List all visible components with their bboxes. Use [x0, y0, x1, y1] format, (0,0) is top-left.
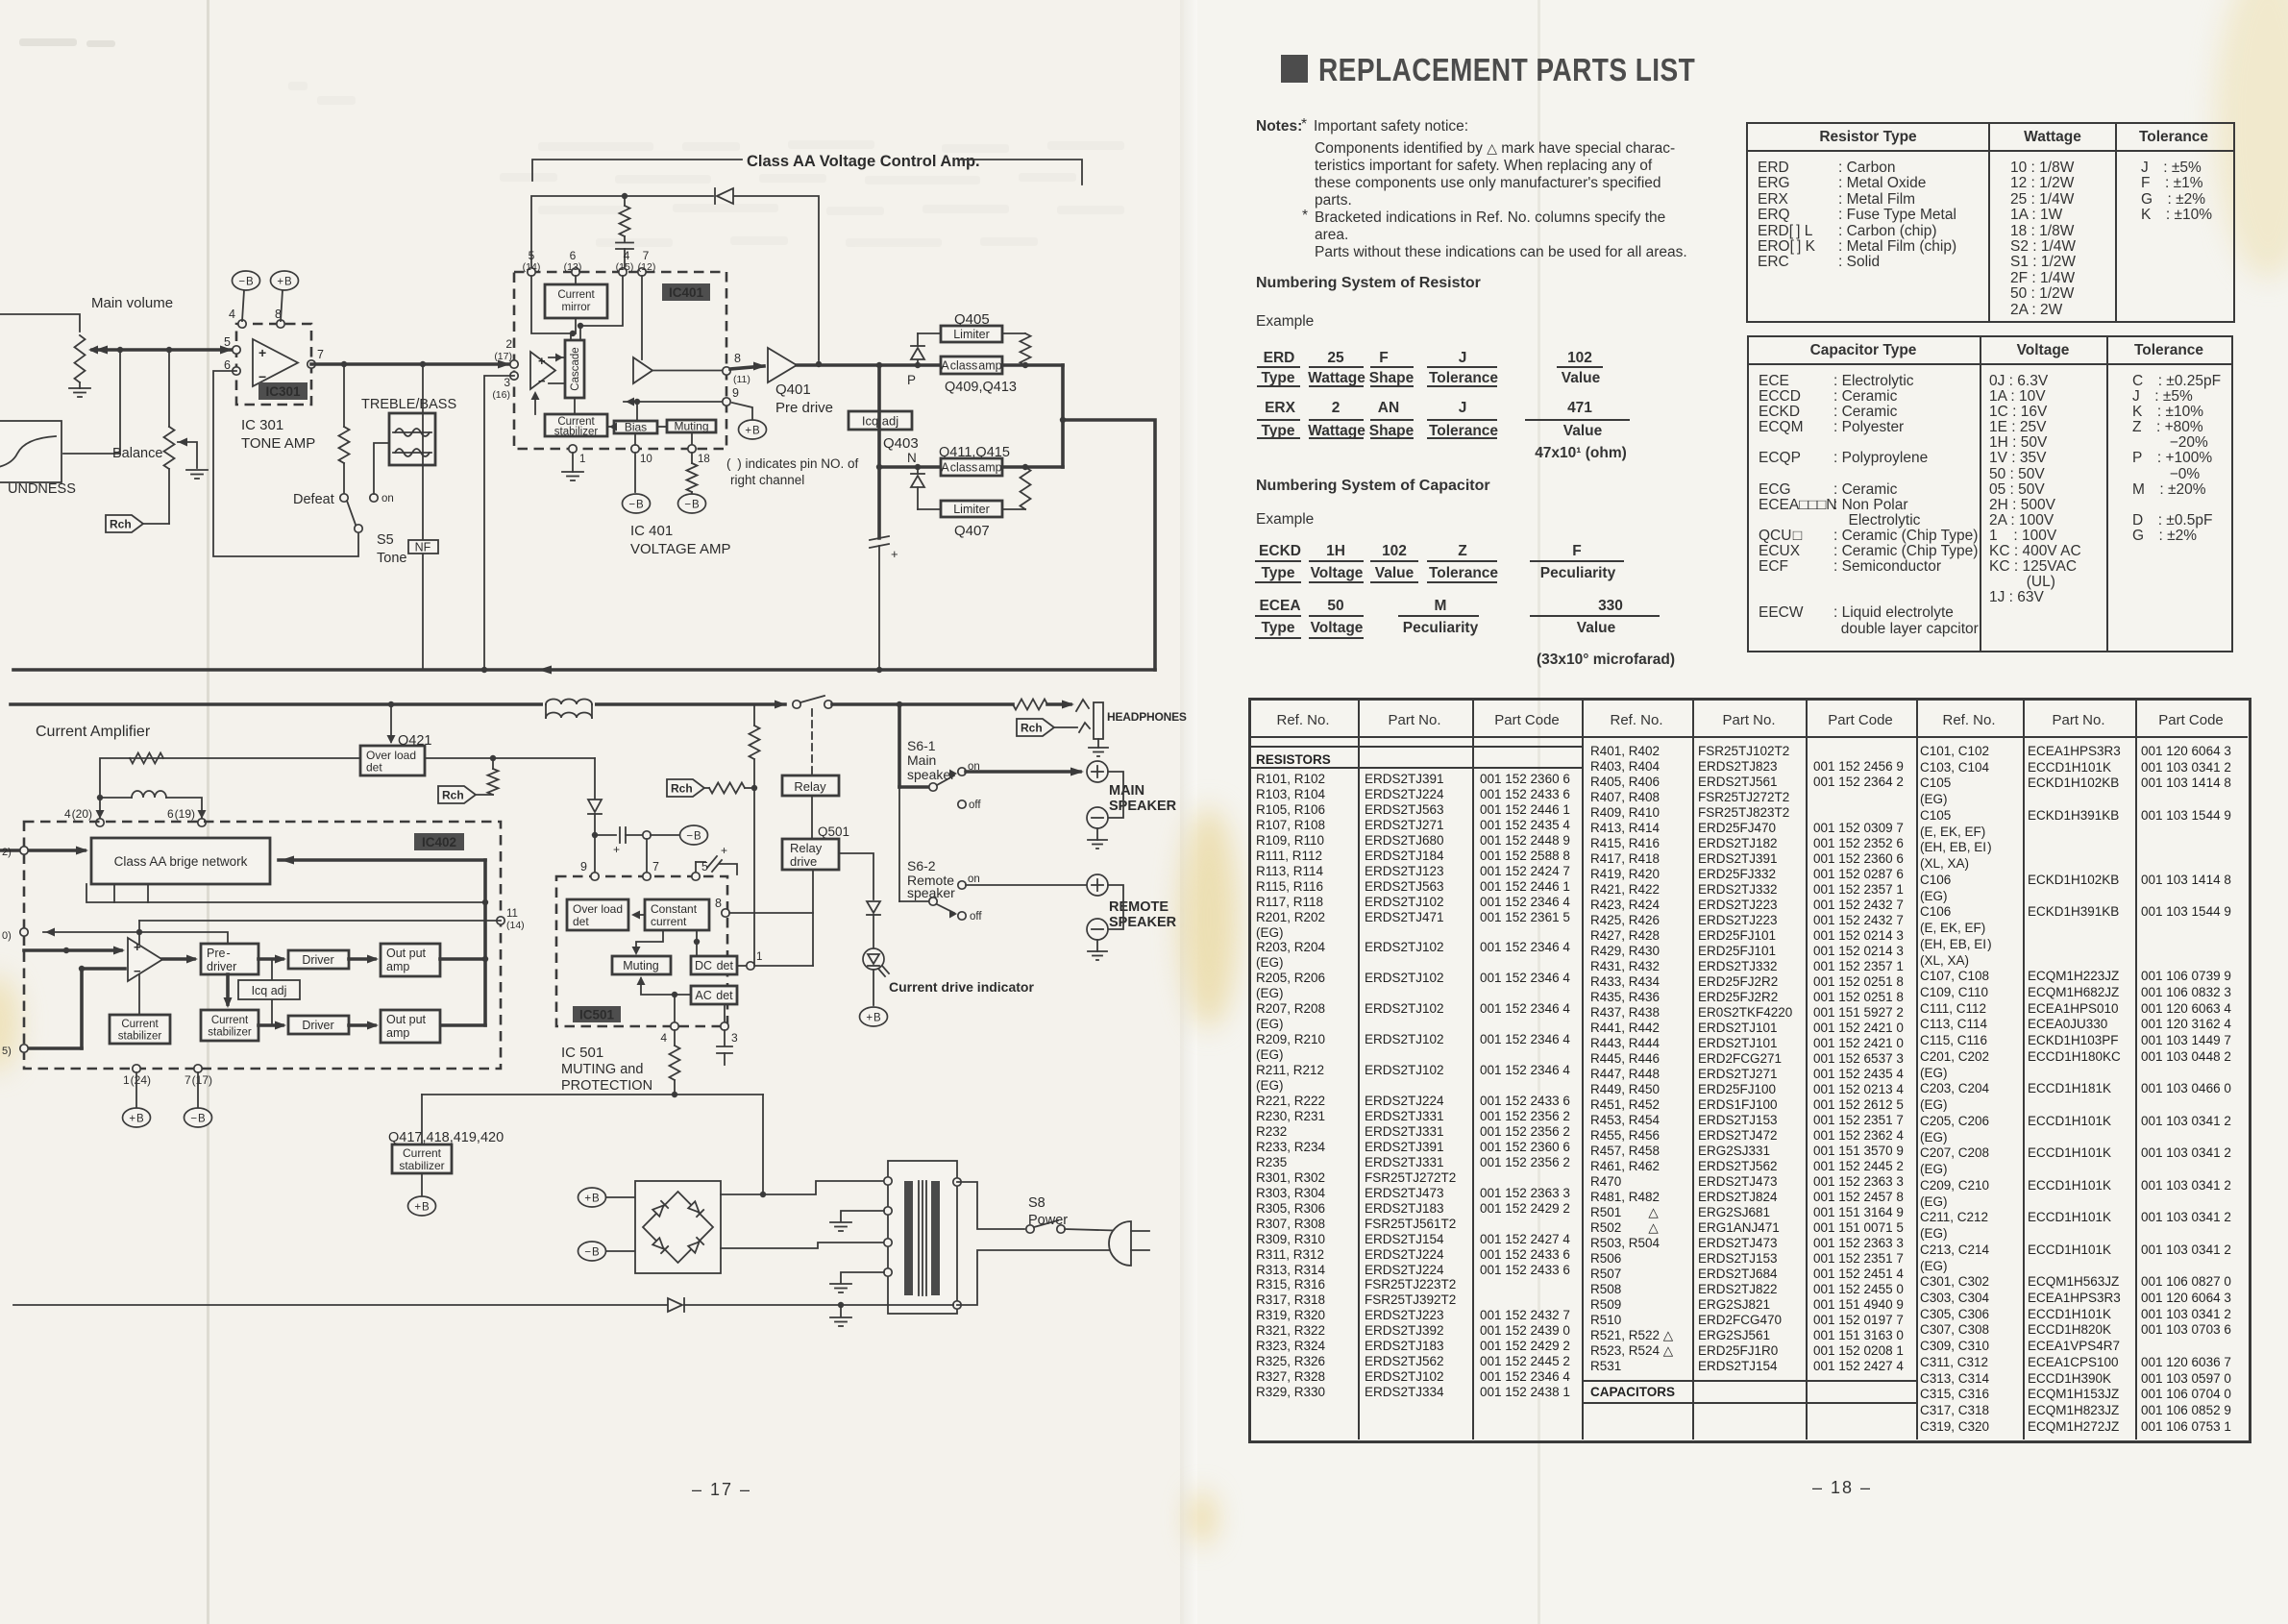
- svg-text:off: off: [969, 800, 981, 811]
- capacitor (above IC401 pin 4): [616, 242, 633, 244]
- svg-text:IC401: IC401: [669, 285, 704, 300]
- svg-text:+: +: [721, 844, 727, 857]
- big replacement parts table: [1248, 698, 2251, 1443]
- svg-text:(12): (12): [638, 261, 656, 273]
- wire constant current to overload det: [634, 914, 645, 916]
- wire IC301 output line: [311, 362, 514, 366]
- IC402 dashed outline: [24, 822, 501, 1069]
- wire feedback from pin 11: [139, 920, 501, 922]
- svg-text:3: 3: [731, 1031, 738, 1045]
- svg-text:4: 4: [229, 308, 235, 321]
- svg-text:Class AA brige network: Class AA brige network: [114, 854, 248, 869]
- wire relay to relay drive: [811, 796, 813, 839]
- svg-text:7: 7: [317, 348, 324, 361]
- power +B (LED): [860, 1007, 888, 1026]
- svg-text:Tone: Tone: [377, 551, 406, 566]
- notes: [1256, 118, 1302, 135]
- svg-text:UNDNESS: UNDNESS: [8, 481, 76, 497]
- svg-text:11: 11: [506, 908, 518, 920]
- svg-text:7: 7: [652, 860, 659, 874]
- potentiometer Balance: [168, 350, 170, 427]
- capacitor (pin 3): [724, 1030, 726, 1046]
- svg-text:drive: drive: [790, 854, 817, 869]
- resistor (Q405 branch): [1021, 333, 1031, 365]
- block Current mirror: [545, 284, 607, 318]
- svg-text:SPEAKER: SPEAKER: [1109, 799, 1177, 814]
- power +B (IC402): [123, 1108, 151, 1127]
- block Current stabilizer Q417-420: [392, 1144, 452, 1173]
- wire S5 on-contact to treble/bass box: [374, 443, 389, 494]
- svg-text:9: 9: [580, 860, 587, 874]
- block Muting (IC501): [612, 956, 671, 974]
- switch S5 Tone: [340, 494, 348, 502]
- svg-text:3: 3: [504, 376, 510, 389]
- resistor (pin 4): [674, 1030, 676, 1046]
- block Current stabilizer (IC401): [545, 414, 607, 436]
- svg-text:Driver: Driver: [302, 1019, 333, 1032]
- power -B (IC301 pin4): [242, 290, 244, 321]
- wire relay drive to pin 8: [812, 870, 814, 966]
- resistor (headphone feed): [1013, 700, 1047, 710]
- inductor (fb coil): [100, 797, 132, 799]
- svg-text:+: +: [891, 547, 898, 561]
- block Limiter Q405: [918, 332, 941, 334]
- wire rectifier output (top): [721, 1181, 884, 1194]
- svg-text:amp: amp: [386, 1026, 409, 1040]
- ground (balance): [186, 469, 208, 471]
- svg-text:Cascade: Cascade: [570, 347, 581, 390]
- block Current stabilizer (left): [110, 1015, 170, 1044]
- pin 3 of IC501: [724, 1004, 726, 1026]
- svg-text:(16): (16): [492, 389, 510, 401]
- svg-text:5: 5: [701, 860, 708, 874]
- block Over load det (Q421): [360, 746, 425, 775]
- svg-text:Muting: Muting: [623, 959, 659, 972]
- power +B (IC301 pin8): [281, 290, 283, 321]
- block Current stabilizer (mid): [201, 1010, 258, 1041]
- block NF: [422, 364, 424, 540]
- svg-text:6: 6: [570, 249, 577, 262]
- wire main bus to headphones: [11, 702, 785, 706]
- svg-text:P: P: [907, 373, 916, 387]
- svg-text:+: +: [613, 843, 620, 856]
- terminal main speaker -: [1108, 772, 1123, 818]
- block Class AA brige network: [91, 838, 270, 884]
- block Icq adj (IC402): [271, 959, 273, 1025]
- svg-text:4: 4: [660, 1031, 667, 1045]
- svg-text:S6-2: S6-2: [907, 858, 936, 874]
- svg-text:Defeat: Defeat: [293, 492, 334, 507]
- svg-text:−: −: [538, 374, 546, 388]
- wire - input of IC402 opamp: [24, 1046, 82, 1050]
- wire bottom winding line: [13, 1304, 667, 1306]
- resistor (pin 18): [687, 463, 698, 492]
- svg-text:Current drive indicator: Current drive indicator: [889, 979, 1034, 995]
- flag Rch (relay): [667, 779, 704, 797]
- pin 5 (14) of IC401: [528, 268, 535, 276]
- svg-text:IC501: IC501: [579, 1008, 615, 1022]
- op-amp (IC401 input stage): [530, 352, 555, 389]
- wire transformer tap 4 to ground: [841, 1272, 884, 1283]
- pin 4 (20) of IC402: [96, 810, 105, 819]
- svg-text:5): 5): [2, 1046, 12, 1057]
- svg-text:current: current: [651, 915, 687, 928]
- block Out put amp (upper): [381, 944, 440, 976]
- svg-text:Current: Current: [557, 289, 595, 301]
- resistor (top of IC401 pin 4): [624, 196, 626, 206]
- svg-text:− B: − B: [686, 831, 701, 843]
- pin 10 of IC401: [631, 445, 639, 453]
- svg-text:HEADPHONES: HEADPHONES: [1107, 710, 1187, 724]
- wire input to main volume pot: [0, 314, 80, 332]
- capacitor (electrolytic at pin9): [595, 834, 616, 836]
- svg-text:18: 18: [698, 454, 710, 465]
- wire input to Class AA network: [0, 849, 85, 852]
- diode (relay feed): [594, 758, 596, 799]
- svg-text:0): 0): [2, 930, 12, 942]
- power +B (Q417 stabilizer): [421, 1173, 423, 1195]
- svg-text:Over load: Over load: [573, 902, 623, 916]
- svg-text:− B: − B: [190, 1114, 206, 1125]
- svg-text:Icq adj: Icq adj: [252, 984, 287, 997]
- LED Current drive indicator: [863, 948, 884, 970]
- power -B (pin 10): [623, 494, 651, 513]
- svg-text:Q403: Q403: [883, 435, 919, 452]
- svg-text:Q417,418,419,420: Q417,418,419,420: [388, 1130, 504, 1145]
- wire driver to out put amp: [349, 957, 375, 961]
- svg-text:Relay: Relay: [794, 779, 826, 794]
- switch S6-2: [899, 900, 928, 902]
- svg-text:MUTING and: MUTING and: [561, 1062, 643, 1077]
- wire constant current to DC det: [696, 930, 698, 956]
- svg-text:Current: Current: [211, 1015, 249, 1026]
- svg-text:(14): (14): [506, 920, 525, 931]
- op-amp IC301: [236, 324, 311, 405]
- resistor (Q407 branch): [1021, 467, 1031, 509]
- svg-text:10: 10: [640, 454, 652, 465]
- svg-text:Out put: Out put: [386, 947, 427, 960]
- switch (headphone mute): [775, 701, 786, 709]
- transformer T1: [888, 1161, 957, 1314]
- svg-text:A class amp: A class amp: [941, 461, 1001, 475]
- diode D401 (feedback, pointing left): [717, 188, 733, 204]
- capacitor (pin 5): [695, 862, 697, 873]
- wire main signal line: [92, 348, 234, 352]
- svg-text:TONE AMP: TONE AMP: [241, 435, 315, 452]
- svg-text:+: +: [538, 354, 546, 368]
- node: Class AA Voltage Control Amp. bracket: [532, 160, 742, 181]
- svg-text:+ B: + B: [129, 1114, 144, 1125]
- block Driver (lower): [288, 1016, 349, 1034]
- wire pre-driver down to stabilizer: [226, 974, 230, 1004]
- pin 4 (15) of IC401: [619, 268, 627, 276]
- power -B (pin 7 line): [651, 834, 678, 836]
- svg-text:stabilizer: stabilizer: [208, 1027, 252, 1039]
- svg-text:Main volume: Main volume: [91, 295, 173, 311]
- svg-text:Rch: Rch: [1021, 722, 1043, 735]
- svg-text:det: det: [573, 915, 589, 928]
- headphone jack: [1076, 700, 1089, 711]
- svg-text:SPEAKER: SPEAKER: [1109, 915, 1177, 930]
- wire network bottom taps: [113, 884, 115, 902]
- op-amp block IC401 (dashed outline): [514, 272, 726, 449]
- pin 1 of IC501: [737, 965, 747, 967]
- svg-text:Constant: Constant: [651, 902, 698, 916]
- power +B (IC401 pin9): [732, 403, 752, 420]
- block Relay drive: [782, 839, 839, 870]
- wire rectifier output (bottom): [721, 1243, 884, 1248]
- ECKD example row: [1259, 543, 1301, 560]
- pin 7 (17) of IC402: [194, 1065, 202, 1072]
- svg-text:Q501: Q501: [818, 824, 849, 839]
- pin 1 (24) of IC402: [133, 1065, 140, 1072]
- pin 9 of IC501: [591, 873, 599, 880]
- flag Rch (headphones): [1017, 719, 1054, 736]
- svg-text:− B: − B: [238, 277, 254, 288]
- wire top feedback loop: [531, 196, 713, 270]
- svg-text:stabilizer: stabilizer: [399, 1159, 444, 1172]
- svg-text:Pre drive: Pre drive: [775, 400, 833, 416]
- svg-text:( ) indicates pin NO. of: ( ) indicates pin NO. of: [726, 456, 859, 471]
- pin 7 (12) of IC401: [638, 268, 646, 276]
- diode (LED chain): [867, 901, 880, 913]
- scan artifacts (bleed-through, decorative): [288, 82, 1124, 247]
- svg-text:PROTECTION: PROTECTION: [561, 1078, 652, 1094]
- bridge rectifier: [635, 1181, 721, 1273]
- ground (bottom line): [840, 1305, 842, 1316]
- wire P output to right bus: [1002, 363, 1063, 367]
- transistor Q401 Pre drive: [768, 348, 797, 382]
- svg-text:Balance: Balance: [112, 446, 162, 461]
- potentiometer Main volume: [75, 335, 86, 382]
- svg-text:Rch: Rch: [442, 789, 464, 802]
- svg-text:Rch: Rch: [671, 782, 693, 796]
- svg-text:IC 401: IC 401: [630, 523, 673, 539]
- block Muting (IC401): [667, 420, 716, 432]
- svg-text:on: on: [968, 874, 980, 885]
- svg-text:Limiter: Limiter: [953, 503, 990, 516]
- svg-text:5: 5: [529, 249, 535, 262]
- svg-text:4 (20): 4 (20): [64, 807, 92, 821]
- ECEA example row: [1259, 598, 1300, 615]
- svg-text:speaker: speaker: [907, 767, 955, 782]
- pin 4 of IC501: [674, 995, 676, 1026]
- pin 5 of IC501: [692, 873, 700, 880]
- svg-text:8: 8: [734, 352, 741, 365]
- wire + input of IC402 opamp: [24, 948, 121, 952]
- wire S6-2 to remote speaker: [966, 884, 1086, 886]
- label IC402: [414, 833, 464, 850]
- resistor (Rch relay): [709, 783, 745, 794]
- block DC det: [691, 956, 737, 974]
- svg-text:mirror: mirror: [561, 302, 590, 313]
- diode (P limiter): [917, 359, 919, 365]
- wire buffer to pin 8 (11): [652, 370, 723, 372]
- wire balance wiper to ground: [178, 442, 197, 468]
- pin 7 of IC501: [643, 873, 651, 880]
- wire secondary to S8: [957, 1182, 1024, 1229]
- flag Rch (IC402): [438, 786, 476, 803]
- block Limiter Q407: [918, 508, 941, 510]
- wire Q401 output line: [797, 363, 941, 367]
- svg-text:Current: Current: [403, 1146, 442, 1160]
- inductor (output coil): [543, 699, 595, 710]
- label IC401: [662, 283, 710, 301]
- wire N output to right bus: [1002, 465, 1063, 469]
- svg-text:Muting: Muting: [674, 420, 708, 433]
- svg-text:Main: Main: [907, 752, 936, 768]
- svg-text:5: 5: [224, 335, 231, 349]
- terminal main speaker +: [1087, 761, 1108, 782]
- svg-text:IC301: IC301: [265, 384, 301, 399]
- svg-text:Out put: Out put: [386, 1013, 427, 1026]
- svg-text:2): 2): [2, 847, 12, 858]
- svg-text:N: N: [907, 451, 917, 465]
- terminal remote speaker +: [1087, 874, 1108, 896]
- svg-text:− B: − B: [628, 500, 644, 511]
- svg-text:(14): (14): [523, 261, 541, 273]
- wire N line: [877, 365, 881, 467]
- wire switch to speakers junction: [832, 702, 1013, 706]
- svg-text:(11): (11): [733, 374, 750, 385]
- resistor (to Rch flag): [488, 769, 499, 795]
- svg-text:(17): (17): [494, 351, 512, 362]
- wire driver to out put amp (lower): [349, 1023, 375, 1027]
- svg-text:Class AA Voltage Control Amp.: Class AA Voltage Control Amp.: [747, 153, 980, 170]
- svg-text:driver: driver: [207, 960, 236, 973]
- wire pin 9 line: [624, 401, 723, 403]
- pin 6 (19) of IC402: [198, 810, 207, 819]
- LOUDNESS block: [0, 421, 62, 482]
- wire cascade to current stabilizer: [574, 398, 576, 414]
- resistor (IC402 fb top): [130, 753, 163, 764]
- svg-text:stabilizer: stabilizer: [118, 1031, 162, 1043]
- svg-text:(15): (15): [616, 261, 634, 273]
- wire to LOUDNESS box: [63, 350, 120, 454]
- svg-text:AC det: AC det: [695, 989, 733, 1002]
- svg-text:REMOTE: REMOTE: [1109, 899, 1169, 915]
- svg-text:S8: S8: [1028, 1195, 1046, 1211]
- svg-text:+ B: + B: [414, 1202, 430, 1214]
- block Out put amp (lower): [381, 1010, 440, 1043]
- svg-text:Bias: Bias: [625, 421, 647, 434]
- wire stabilizer to driver (lower): [258, 1023, 283, 1027]
- wire IC401 pin3 to NF line: [484, 376, 514, 668]
- block Pre-driver: [201, 944, 258, 974]
- switch S6-1: [899, 785, 928, 789]
- svg-text:off: off: [970, 911, 982, 923]
- power -B (bridge input): [578, 1242, 606, 1261]
- terminal remote speaker -: [1108, 885, 1123, 929]
- label IC501: [573, 1006, 621, 1022]
- svg-text:Current: Current: [121, 1019, 159, 1030]
- wire speaker bus down: [898, 704, 901, 787]
- op-amp (IC402 input): [128, 938, 162, 981]
- wire constant current to muting: [636, 930, 663, 952]
- svg-text:Limiter: Limiter: [953, 328, 990, 341]
- block Cascade: [565, 340, 584, 398]
- svg-text:7: 7: [643, 249, 650, 262]
- svg-text:+: +: [134, 940, 141, 954]
- svg-text:Relay: Relay: [790, 841, 823, 855]
- block Driver (upper): [288, 950, 349, 969]
- svg-text:+ B: + B: [745, 426, 760, 437]
- svg-text:2: 2: [505, 337, 512, 351]
- wire drive into network (from output bus): [279, 858, 485, 862]
- svg-text:(13): (13): [564, 261, 582, 273]
- wire stabilizer row to rectifier: [422, 1094, 763, 1095]
- IC501 dashed outline: [556, 876, 727, 1026]
- svg-text:−: −: [258, 369, 266, 384]
- svg-text:Q409,Q413: Q409,Q413: [945, 380, 1017, 395]
- power +B (bridge input): [578, 1188, 606, 1207]
- svg-text:+ B: + B: [866, 1013, 881, 1024]
- block Over load det (IC501): [567, 899, 628, 930]
- svg-text:S5: S5: [377, 532, 394, 548]
- pin 18 of IC401: [688, 445, 696, 453]
- svg-text:IC 301: IC 301: [241, 417, 283, 433]
- svg-text:amp: amp: [386, 960, 409, 973]
- svg-text:6: 6: [224, 358, 231, 372]
- svg-text:A class amp: A class amp: [941, 359, 1001, 373]
- svg-text:8: 8: [715, 897, 722, 910]
- block AC det: [691, 986, 737, 1004]
- svg-text:− B: − B: [584, 1247, 600, 1259]
- wire secondary low to plug: [957, 1250, 1131, 1305]
- svg-text:S6-1: S6-1: [907, 738, 936, 753]
- Resistor type table: [1746, 122, 2235, 323]
- block Bias: [614, 421, 657, 433]
- power -B (IC402): [185, 1108, 212, 1127]
- svg-text:+ B: + B: [277, 277, 292, 288]
- svg-text:Pre -: Pre -: [207, 947, 231, 960]
- wire right bus down: [1063, 420, 1155, 670]
- wire overload det to relay line: [425, 757, 595, 759]
- wire op-amp to cascade: [549, 357, 565, 358]
- resistor (defeat branch): [343, 364, 345, 427]
- svg-text:on: on: [381, 493, 394, 504]
- ERX example row: [1265, 400, 1295, 417]
- svg-text:9: 9: [732, 386, 739, 400]
- svg-text:DC det: DC det: [695, 959, 733, 972]
- wire opamp to pre-driver: [162, 957, 194, 961]
- svg-text:+ B: + B: [584, 1193, 600, 1205]
- ground (tap 2): [830, 1221, 851, 1223]
- wire bus to overload det: [390, 704, 392, 742]
- svg-text:Rch: Rch: [110, 518, 132, 531]
- block Constant current: [645, 899, 709, 930]
- svg-text:−: −: [134, 964, 141, 978]
- wire outputs to bus: [440, 957, 485, 961]
- ERD example row: [1264, 350, 1295, 367]
- svg-text:Q401: Q401: [775, 381, 811, 398]
- svg-text:det: det: [366, 761, 382, 775]
- svg-text:NF: NF: [415, 541, 431, 554]
- svg-text:MAIN: MAIN: [1109, 783, 1144, 799]
- wire stabilizer to op-amp (arrow up): [534, 395, 536, 414]
- pin 11 (14) of IC402: [497, 917, 504, 924]
- wire relay drive branch to LED: [839, 853, 873, 899]
- buffer amp (IC401 output stage): [633, 357, 652, 383]
- ground (main volume): [69, 387, 90, 389]
- ground (tap 4): [830, 1283, 851, 1285]
- wire AC det to muting: [641, 978, 691, 995]
- power -B (pin 18): [678, 494, 706, 513]
- pin 1 of IC401 with ground: [569, 445, 577, 453]
- svg-text:VOLTAGE AMP: VOLTAGE AMP: [630, 541, 730, 557]
- wire relay switch link (dashed): [811, 709, 813, 775]
- svg-text:Driver: Driver: [302, 953, 333, 967]
